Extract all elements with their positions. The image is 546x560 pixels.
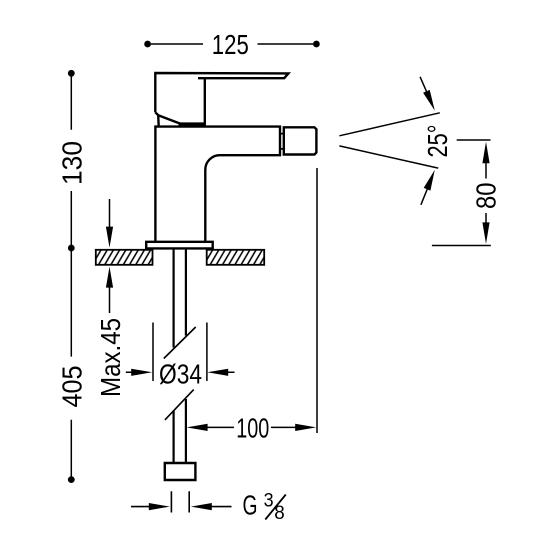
left dimension dots [68, 70, 75, 77]
pipe break slash upper [164, 327, 196, 359]
dimension 80 arrows [482, 142, 489, 164]
countertop right slab [207, 250, 265, 265]
angle 25 deg lines [339, 77, 439, 205]
svg-text:125: 125 [212, 29, 249, 60]
dimension 100 arrows [187, 424, 208, 431]
svg-text:G: G [243, 489, 258, 520]
svg-text:Ø34: Ø34 [159, 358, 202, 389]
connection nut [165, 463, 196, 480]
dimension Ø34 arrows [131, 369, 152, 376]
dimension G3/8 ticks [131, 491, 232, 512]
svg-text:25°: 25° [422, 125, 453, 158]
aerator knob [284, 127, 317, 154]
svg-text:130: 130 [57, 141, 88, 185]
svg-text:100: 100 [236, 413, 269, 444]
dimension 100 line [206, 168, 317, 433]
cartridge stem vertical [204, 78, 206, 125]
dimension 125 end dots [144, 41, 151, 48]
supply pipe [174, 248, 186, 463]
dimension 80 ticks [432, 140, 491, 246]
svg-text:8: 8 [274, 502, 285, 524]
angle 25 deg leader arrows [423, 90, 435, 111]
faucet body and spout outline [155, 127, 280, 242]
countertop left slab [96, 250, 153, 265]
base plate [146, 242, 213, 249]
dimension 125 line [151, 43, 313, 45]
svg-text:Max.45: Max.45 [95, 318, 126, 397]
lever handle outline [155, 73, 288, 127]
dimension Ø34 ticks [126, 323, 235, 382]
left dimension line 130/405 [70, 73, 72, 479]
dimension G3/8 arrows [149, 503, 170, 510]
Max.45 dimension arrows [109, 199, 111, 313]
svg-text:80: 80 [471, 183, 502, 210]
svg-text:405: 405 [56, 366, 87, 408]
svg-text:3: 3 [264, 490, 274, 512]
pipe break slash lower [165, 390, 194, 420]
aerator neck lines [280, 134, 284, 149]
lever base thick band [179, 122, 207, 126]
